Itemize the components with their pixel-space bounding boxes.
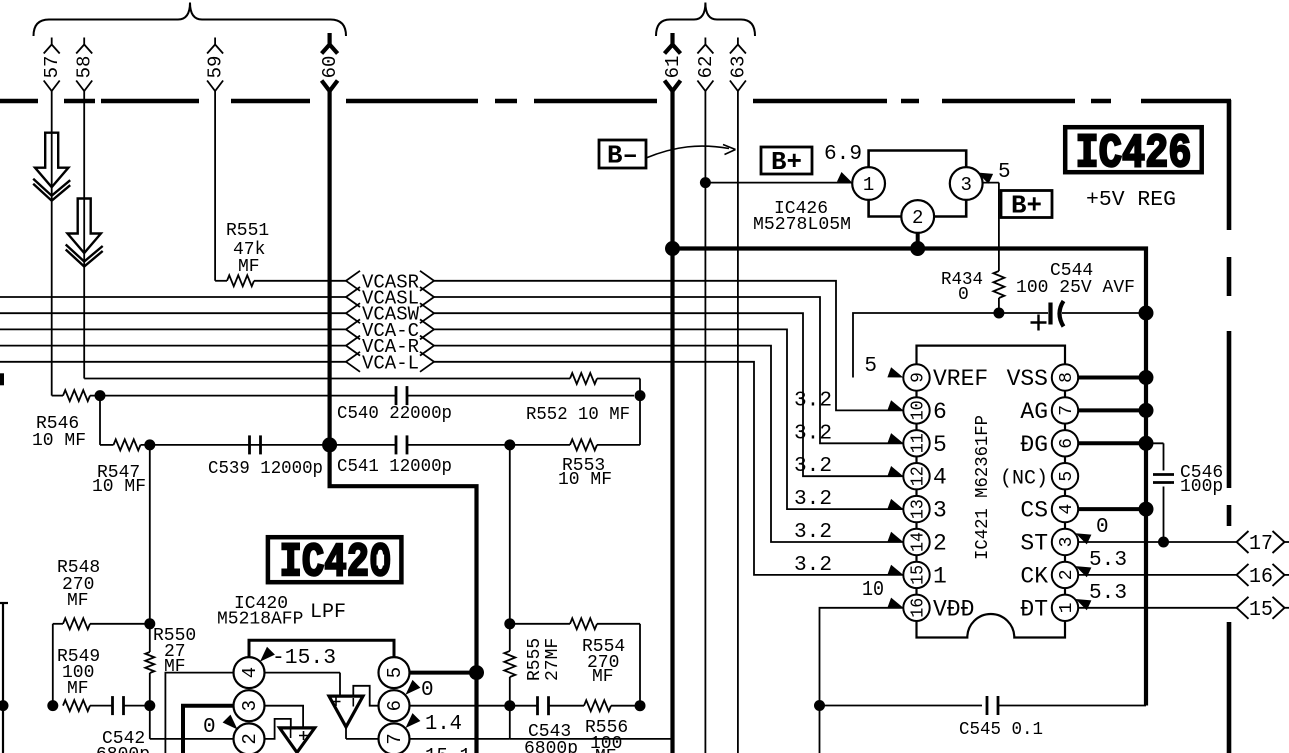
wire opamp2 output bbox=[346, 727, 379, 739]
svg-text:VĐĐ: VĐĐ bbox=[933, 596, 974, 622]
op-amp A1 triangle bbox=[280, 728, 315, 753]
svg-text:5.3: 5.3 bbox=[1089, 582, 1127, 605]
net label VCA-C bbox=[346, 319, 434, 342]
wire pin 60 (bold) down to junction bbox=[328, 91, 332, 445]
resistor R554 bbox=[570, 618, 597, 629]
svg-text:10 MF: 10 MF bbox=[32, 431, 86, 451]
wire R547 node down bbox=[149, 445, 151, 624]
svg-text:0: 0 bbox=[1096, 516, 1109, 539]
voltage 10 at IC421 pin16 bbox=[862, 579, 903, 608]
IC426 frame bottom right bbox=[934, 200, 966, 217]
svg-text:3.2: 3.2 bbox=[794, 389, 832, 412]
svg-text:14: 14 bbox=[908, 532, 928, 552]
svg-text:LPF: LPF bbox=[310, 601, 346, 624]
IC421 pin name ĐT bbox=[1020, 596, 1048, 622]
wire R550 leads bbox=[149, 624, 151, 706]
IC421 pin 11 circle bbox=[903, 430, 929, 456]
svg-text:1: 1 bbox=[1057, 602, 1077, 613]
IC420 pin 3 circle bbox=[234, 690, 265, 721]
node left edge bbox=[0, 700, 9, 711]
arrow B- to wire 63 bbox=[646, 145, 736, 159]
wire IC426 pin2 to rail bbox=[916, 232, 920, 248]
wire R549 to C542 bbox=[90, 705, 113, 707]
IC421 pin name 4 bbox=[933, 465, 947, 491]
label C541 12000p bbox=[337, 457, 452, 477]
svg-text:100p: 100p bbox=[1180, 477, 1223, 497]
op-amp A2 triangle bbox=[329, 696, 363, 727]
net label VCASW bbox=[346, 303, 434, 326]
IC421 pin 9 circle bbox=[903, 364, 929, 390]
voltage 5 at pin3 bbox=[977, 161, 1010, 184]
svg-text:+5V REG: +5V REG bbox=[1086, 189, 1176, 212]
label R548 270 MF bbox=[57, 558, 100, 611]
IC421 pin name CK bbox=[1020, 563, 1048, 589]
node wire62/IC426 pin1 bbox=[700, 177, 711, 188]
label R555 27MF (rotated) bbox=[525, 638, 563, 681]
IC426 frame bottom left bbox=[869, 200, 902, 217]
svg-text:4: 4 bbox=[1057, 504, 1077, 515]
wire R551 to VCASR bbox=[254, 280, 346, 282]
connector pin 61 bbox=[662, 33, 684, 91]
wire C542 to node bbox=[124, 705, 150, 707]
svg-text:M5278L05M: M5278L05M bbox=[753, 215, 851, 235]
IC421 pin 3 circle bbox=[1052, 529, 1078, 555]
IC426 pin 3 circle bbox=[950, 167, 983, 200]
wire pin6 to opamp2 -input bbox=[353, 686, 378, 706]
svg-text:MF: MF bbox=[238, 257, 260, 277]
IC420 reference box bbox=[268, 537, 402, 591]
svg-text:3.2: 3.2 bbox=[794, 455, 832, 478]
wire VCA-L to left edge bbox=[0, 361, 346, 363]
connector pin 62 bbox=[695, 38, 717, 92]
voltage 1.4 at pin 7 bbox=[406, 713, 463, 736]
IC421 pin name ST bbox=[1020, 531, 1048, 557]
capacitor C541 bbox=[396, 435, 407, 454]
capacitor C539 bbox=[250, 435, 261, 454]
IC421 pin name 6 bbox=[933, 399, 947, 425]
svg-text:2: 2 bbox=[239, 733, 261, 744]
left edge stub bbox=[0, 373, 4, 385]
capacitor C544 (polarized) bbox=[999, 301, 1146, 331]
net label VCA-R bbox=[346, 336, 434, 359]
svg-text:0: 0 bbox=[958, 285, 969, 305]
svg-text:VSS: VSS bbox=[1007, 366, 1048, 392]
IC421 pin name AG bbox=[1020, 399, 1048, 425]
wire ST to conn 17 bbox=[1078, 541, 1236, 543]
wire VCA-C to IC421 pin 13 bbox=[434, 329, 903, 509]
node C544/thick line bbox=[1139, 306, 1154, 321]
svg-text:VCA-L: VCA-L bbox=[362, 352, 419, 374]
wire pin 63 to bottom bbox=[737, 91, 739, 753]
svg-text:5: 5 bbox=[933, 432, 947, 458]
wire pin3 left (bold) bbox=[183, 706, 234, 753]
svg-text:C541 12000p: C541 12000p bbox=[337, 457, 452, 477]
node pin5/thick bbox=[469, 665, 484, 680]
resistor R555 bbox=[504, 651, 515, 677]
svg-text:-15.3: -15.3 bbox=[272, 647, 336, 670]
IC421 pin 13 circle bbox=[903, 496, 929, 522]
wire IC421 CS to B+ line (bold) bbox=[1078, 502, 1153, 517]
svg-text:3.2: 3.2 bbox=[794, 521, 832, 544]
svg-text:1: 1 bbox=[863, 174, 874, 196]
svg-text:B+: B+ bbox=[771, 147, 802, 177]
resistor R547 bbox=[114, 439, 141, 450]
svg-text:2: 2 bbox=[1057, 569, 1077, 580]
voltage -15.3 at pin 4 bbox=[260, 647, 336, 670]
voltage 3.2 at IC421 pin 15 bbox=[794, 554, 903, 577]
wire R553 to node bbox=[597, 396, 640, 445]
node R547/R550 bbox=[144, 439, 155, 450]
IC421 pin name (NC) bbox=[1000, 468, 1048, 491]
resistor R550 bbox=[145, 652, 154, 673]
label C544 100 25V AVF bbox=[1016, 261, 1135, 298]
svg-text:100 25V AVF: 100 25V AVF bbox=[1016, 278, 1135, 298]
label C539 12000p bbox=[208, 459, 323, 479]
connector pin 63 bbox=[727, 38, 749, 92]
svg-text:R552 10 MF: R552 10 MF bbox=[526, 405, 630, 425]
node R548/R550 bbox=[144, 618, 155, 629]
IC420 pin 2 circle bbox=[234, 723, 265, 753]
IC421 pin 10 circle bbox=[903, 397, 929, 423]
label C542 6800p bbox=[96, 729, 150, 753]
label C545 0.1 bbox=[959, 720, 1043, 740]
wire C545 left bbox=[820, 705, 983, 707]
wire pin2 to opamp1 -input bbox=[265, 719, 291, 739]
node C546/ST bbox=[1158, 537, 1169, 548]
svg-text:C540 22000p: C540 22000p bbox=[337, 404, 452, 424]
net label VCASR bbox=[346, 271, 434, 294]
label R547 10 MF bbox=[92, 463, 146, 497]
resistor R546 bbox=[63, 390, 90, 401]
wire C545 right bbox=[998, 705, 1146, 707]
wire pin 60 elbow to bottom (bold) bbox=[330, 445, 477, 753]
svg-text:62: 62 bbox=[695, 56, 717, 79]
IC421 pin 8 circle bbox=[1052, 364, 1078, 390]
svg-text:MF: MF bbox=[67, 679, 89, 699]
wire IC426 pin3 to R434 bbox=[983, 183, 999, 271]
wire VCA-R to IC421 pin 14 bbox=[434, 346, 903, 542]
svg-text:6800p: 6800p bbox=[524, 739, 578, 753]
wire pin6 row right bbox=[410, 705, 641, 707]
wire IC421 AG to B+ line (bold) bbox=[1078, 403, 1153, 418]
label R550 27 MF bbox=[153, 626, 196, 677]
wire R434 to node bbox=[998, 298, 1000, 313]
voltage 3.2 at IC421 pin 13 bbox=[794, 488, 903, 511]
svg-text:27MF: 27MF bbox=[543, 638, 563, 681]
label R434 0 bbox=[941, 270, 983, 305]
voltage 5 at IC421 pin9 bbox=[864, 355, 903, 378]
sheet border right (dash-dot) bbox=[1227, 100, 1232, 753]
resistor R556 bbox=[584, 700, 611, 711]
label box B+ (output) bbox=[1001, 191, 1052, 221]
svg-text:M5218AFP: M5218AFP bbox=[217, 610, 303, 630]
connector 15 bbox=[1237, 597, 1289, 622]
label R553 10 MF bbox=[558, 456, 612, 490]
label R556 100 MF bbox=[585, 718, 628, 753]
IC421 pin name VĐĐ bbox=[933, 596, 974, 622]
svg-text:15: 15 bbox=[908, 565, 928, 585]
svg-text:6: 6 bbox=[1057, 438, 1077, 449]
svg-text:2: 2 bbox=[933, 531, 947, 557]
svg-text:VREF: VREF bbox=[933, 366, 988, 392]
wire to IC426 pin1 bbox=[705, 182, 852, 184]
capacitor C542 bbox=[113, 696, 124, 715]
svg-text:16: 16 bbox=[1249, 566, 1273, 589]
IC426 reference box bbox=[1065, 127, 1202, 181]
wire pin 59 to R551 bbox=[215, 91, 227, 281]
svg-text:(NC): (NC) bbox=[1000, 468, 1048, 491]
voltage 3.2 at IC421 pin 12 bbox=[794, 455, 903, 478]
wire R554 to R555 node bbox=[510, 623, 570, 625]
IC421 pin 6 circle bbox=[1052, 430, 1078, 456]
wire R554 branch bbox=[597, 624, 640, 706]
IC421 pin 12 circle bbox=[903, 463, 929, 489]
svg-text:IC426: IC426 bbox=[1076, 128, 1192, 182]
svg-text:B–: B– bbox=[607, 141, 638, 171]
svg-text:5: 5 bbox=[864, 355, 877, 378]
IC420 pin 6 circle bbox=[379, 690, 410, 721]
svg-text:4: 4 bbox=[933, 465, 947, 491]
wire C541 node down bbox=[509, 445, 511, 624]
wire CK to conn 16 bbox=[1078, 574, 1236, 576]
brace over pins 61-63 bbox=[656, 3, 755, 37]
voltage 6.9 at pin1 bbox=[824, 143, 862, 183]
wire IC421 VSS to B+ line (bold) bbox=[1078, 370, 1153, 385]
node pin60/R547 row bbox=[322, 437, 337, 452]
svg-text:IC421 M62361FP: IC421 M62361FP bbox=[973, 415, 993, 560]
IC421 pin 4 circle bbox=[1052, 496, 1078, 522]
label R551 47k MF bbox=[226, 221, 269, 277]
svg-text:3: 3 bbox=[239, 700, 261, 711]
svg-text:ĐG: ĐG bbox=[1020, 432, 1048, 458]
svg-text:6: 6 bbox=[933, 399, 947, 425]
svg-text:B+: B+ bbox=[1011, 191, 1042, 221]
svg-text:3.2: 3.2 bbox=[794, 488, 832, 511]
off-page arrow on wire 57 bbox=[33, 133, 70, 201]
IC426 frame top bbox=[869, 151, 967, 168]
label IC421 M62361FP (rotated) bbox=[973, 415, 993, 560]
svg-text:C539 12000p: C539 12000p bbox=[208, 459, 323, 479]
capacitor C540 bbox=[396, 386, 407, 405]
svg-text:15.1: 15.1 bbox=[425, 746, 471, 753]
svg-text:15: 15 bbox=[1249, 599, 1273, 622]
net label VCASL bbox=[346, 287, 434, 310]
svg-text:5: 5 bbox=[998, 161, 1011, 184]
svg-text:0: 0 bbox=[421, 679, 434, 702]
label R552 10 MF bbox=[526, 405, 630, 425]
connector 16 bbox=[1237, 564, 1289, 589]
svg-text:5: 5 bbox=[1057, 471, 1077, 482]
node R556/R554 bbox=[635, 700, 646, 711]
IC421 pin 1 circle bbox=[1052, 595, 1078, 621]
svg-text:8: 8 bbox=[1057, 372, 1077, 383]
resistor R549 bbox=[63, 700, 90, 711]
svg-text:10: 10 bbox=[908, 400, 928, 420]
svg-text:MF: MF bbox=[595, 747, 617, 753]
svg-text:16: 16 bbox=[908, 598, 928, 618]
svg-text:57: 57 bbox=[41, 56, 63, 79]
svg-text:9: 9 bbox=[908, 372, 928, 383]
wire R546 to C540/junction bbox=[90, 395, 634, 397]
label C543 6800p bbox=[524, 722, 578, 753]
B+ rail (bold) bbox=[673, 249, 1147, 706]
IC421 pin name CS bbox=[1020, 498, 1048, 524]
svg-text:61: 61 bbox=[662, 56, 684, 79]
svg-text:5.3: 5.3 bbox=[1089, 549, 1127, 572]
svg-text:MF: MF bbox=[592, 667, 614, 687]
svg-text:R551: R551 bbox=[226, 221, 269, 241]
connector pin 58 bbox=[74, 38, 96, 92]
wire IC421 ĐG to B+ line (bold) bbox=[1078, 436, 1153, 451]
wire pin 62 to bottom bbox=[704, 91, 706, 753]
capacitor C545 bbox=[987, 696, 998, 715]
label IC426 M5278L05M bbox=[753, 199, 851, 235]
svg-text:11: 11 bbox=[908, 433, 928, 453]
svg-text:3: 3 bbox=[1057, 537, 1077, 548]
IC420 pin 7 circle bbox=[379, 723, 410, 753]
connector pin 60 bbox=[319, 33, 341, 91]
resistor R551 bbox=[227, 275, 254, 286]
IC420 pin 5 circle bbox=[379, 657, 410, 688]
partial component at left edge bbox=[0, 603, 8, 753]
capacitor C543 bbox=[538, 696, 549, 715]
wire VCASW to IC421 pin 12 bbox=[434, 313, 903, 476]
svg-text:4: 4 bbox=[239, 667, 261, 678]
wire pin4 to opamp2 +input bbox=[265, 673, 341, 697]
svg-text:ST: ST bbox=[1020, 531, 1048, 557]
svg-text:1: 1 bbox=[933, 563, 947, 589]
IC421 pin 14 circle bbox=[903, 529, 929, 555]
svg-text:10 MF: 10 MF bbox=[92, 477, 146, 497]
svg-text:IC420: IC420 bbox=[280, 537, 392, 591]
label box B- bbox=[599, 140, 646, 171]
node C541/R555 bbox=[504, 439, 515, 450]
IC421 pin name VREF bbox=[933, 366, 988, 392]
wire VCASL to IC421 pin 11 bbox=[434, 297, 903, 443]
wire DT to conn 15 bbox=[1078, 607, 1236, 609]
IC421 pin name 2 bbox=[933, 531, 947, 557]
label IC420 M5218AFP LPF bbox=[217, 594, 346, 630]
IC426 pin 1 circle bbox=[852, 167, 885, 200]
wire pin 58 to R552 row bbox=[84, 91, 570, 379]
svg-text:ĐT: ĐT bbox=[1020, 596, 1048, 622]
svg-text:3.2: 3.2 bbox=[794, 422, 832, 445]
IC421 pin name VSS bbox=[1007, 366, 1048, 392]
IC421 pin 7 circle bbox=[1052, 397, 1078, 423]
voltage 0 at ST bbox=[1076, 516, 1109, 544]
IC421 pin 2 circle bbox=[1052, 562, 1078, 588]
svg-text:6800p: 6800p bbox=[96, 745, 150, 753]
svg-text:AG: AG bbox=[1020, 399, 1048, 425]
svg-text:12: 12 bbox=[908, 466, 928, 486]
svg-text:CS: CS bbox=[1020, 498, 1048, 524]
wire VCA-C to left edge bbox=[0, 328, 346, 330]
wire R547 row bbox=[141, 444, 571, 446]
wire pin2 left bbox=[150, 706, 234, 739]
svg-text:3: 3 bbox=[933, 498, 947, 524]
connector 17 bbox=[1237, 531, 1289, 556]
svg-text:MF: MF bbox=[164, 657, 186, 677]
IC421 pin name 5 bbox=[933, 432, 947, 458]
voltage 5.3 at DT bbox=[1076, 582, 1128, 610]
svg-text:MF: MF bbox=[67, 591, 89, 611]
node R555 top bbox=[504, 618, 515, 629]
svg-text:10: 10 bbox=[862, 579, 884, 602]
svg-text:3: 3 bbox=[960, 174, 971, 196]
node R550/C542 bbox=[144, 700, 155, 711]
node R434/C544 bbox=[993, 308, 1004, 319]
IC421 chip body bbox=[917, 346, 1066, 638]
wire VCASW to left edge bbox=[0, 312, 346, 314]
resistor R553 bbox=[570, 439, 597, 450]
svg-text:2: 2 bbox=[912, 207, 923, 229]
wire pin5 to thick line (bold) bbox=[410, 671, 477, 675]
label R554 270 MF bbox=[582, 637, 625, 687]
wire R555 leads bbox=[509, 624, 511, 706]
svg-text:7: 7 bbox=[384, 733, 406, 744]
connector pin 59 bbox=[205, 38, 227, 92]
voltage 15.1 under pin 7 bbox=[425, 746, 471, 753]
voltage 3.2 at IC421 pin 10 bbox=[794, 389, 903, 412]
wire pin4 to pin5 bridge bbox=[249, 640, 394, 657]
resistor R548 bbox=[63, 618, 90, 629]
svg-text:10 MF: 10 MF bbox=[558, 470, 612, 490]
svg-text:5: 5 bbox=[384, 667, 406, 678]
node rail/IC426 pin2 bbox=[910, 241, 925, 256]
voltage 5.3 at CK bbox=[1076, 549, 1128, 577]
wire R552 to node bbox=[597, 379, 640, 396]
wire VCA-L to IC421 pin 15 bbox=[434, 362, 903, 575]
label C546 100p bbox=[1180, 463, 1223, 497]
resistor R552 bbox=[570, 373, 597, 384]
wire R548 bbox=[53, 624, 150, 706]
svg-text:17: 17 bbox=[1249, 533, 1273, 556]
svg-text:R555: R555 bbox=[525, 638, 545, 681]
svg-text:13: 13 bbox=[908, 499, 928, 519]
node R555/C543 bbox=[504, 700, 515, 711]
node R552/R553/C540 bbox=[635, 390, 646, 401]
svg-text:CK: CK bbox=[1020, 563, 1048, 589]
svg-text:59: 59 bbox=[205, 56, 227, 79]
wire VCASR to IC421 pin 10 bbox=[434, 281, 903, 411]
svg-text:C545 0.1: C545 0.1 bbox=[959, 720, 1043, 740]
wire C546 to ST row bbox=[1163, 487, 1165, 543]
svg-text:63: 63 bbox=[727, 56, 749, 79]
net label VCA-L bbox=[346, 352, 434, 375]
wire down to R547 bbox=[100, 396, 114, 445]
capacitor C546 bbox=[1153, 475, 1174, 483]
wire VCASL to left edge bbox=[0, 296, 346, 298]
node R546/R547 bbox=[95, 390, 106, 401]
IC421 pin name ĐG bbox=[1020, 432, 1048, 458]
resistor R434 bbox=[993, 271, 1004, 298]
wire DG to C546 bbox=[1146, 443, 1164, 470]
wire pin4 left bbox=[165, 673, 233, 753]
svg-text:60: 60 bbox=[319, 56, 341, 79]
IC421 pin name 1 bbox=[933, 563, 947, 589]
label +5V REG bbox=[1086, 189, 1176, 212]
svg-text:1.4: 1.4 bbox=[425, 713, 462, 736]
voltage 3.2 at IC421 pin 11 bbox=[794, 422, 903, 445]
label R549 100 MF bbox=[57, 647, 100, 699]
off-page arrow on wire 58 bbox=[66, 199, 103, 267]
label box B+ (pin1) bbox=[761, 147, 812, 177]
svg-text:6: 6 bbox=[384, 700, 406, 711]
connector pin 57 bbox=[41, 38, 63, 92]
node VDD/C545 bbox=[814, 700, 825, 711]
IC421 pin 16 circle bbox=[903, 595, 929, 621]
svg-text:7: 7 bbox=[1057, 405, 1077, 416]
